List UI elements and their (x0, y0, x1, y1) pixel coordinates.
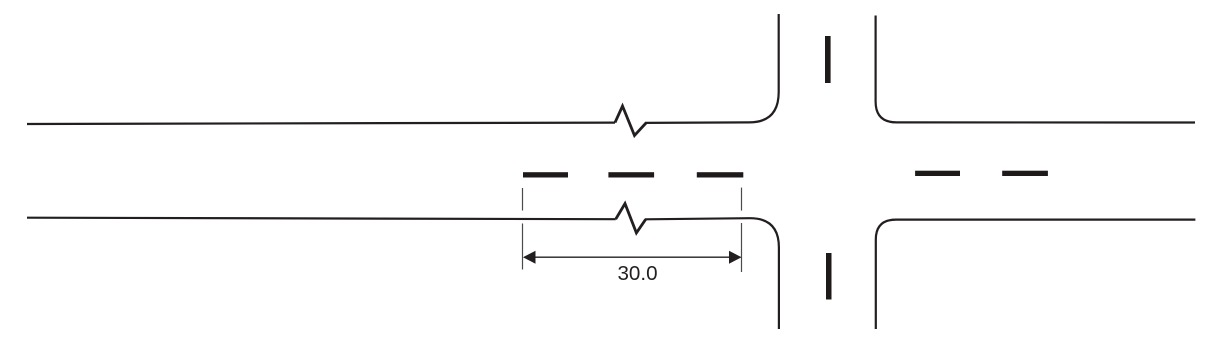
east extension line upper segment (741, 188, 743, 211)
south road edge segment east of break (645, 218, 750, 219)
break symbol on south road edge (616, 204, 646, 233)
dimension line (524, 256, 741, 258)
break symbol on north road edge (615, 106, 646, 136)
west extension line lower segment (522, 224, 524, 270)
centerline dash north leg (825, 36, 831, 83)
south road edge west segment (27, 218, 616, 220)
east extension line lower segment (741, 223, 743, 272)
centerline dash south leg (826, 253, 832, 300)
centerline dash 2 east group (1002, 171, 1048, 176)
west arrowhead (523, 251, 536, 264)
east edge of north leg and northeast corner fillet (876, 16, 1195, 123)
east edge of south leg and southeast corner fillet (876, 220, 1196, 329)
svg-text:30.0: 30.0 (617, 262, 657, 285)
west extension line upper segment (522, 188, 524, 211)
northwest corner fillet and west edge of north leg (749, 14, 779, 122)
centerline dash 1 west group (523, 172, 568, 177)
centerline dash 3 west group (697, 172, 744, 177)
north road edge west segment (27, 123, 615, 124)
east arrowhead (729, 251, 742, 264)
north road edge segment east of break (645, 121, 749, 124)
southwest corner fillet and west edge of south leg (750, 218, 779, 329)
centerline dash 1 east group (915, 171, 960, 176)
centerline dash 2 west group (608, 172, 654, 177)
